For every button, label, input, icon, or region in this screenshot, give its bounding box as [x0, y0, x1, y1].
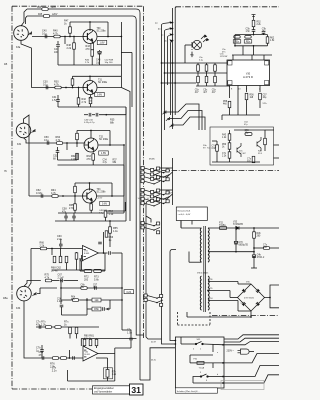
wire [180, 221, 182, 229]
value box [100, 201, 110, 205]
resistor R78 [45, 326, 51, 329]
svg-text:6800µ/35: 6800µ/35 [239, 245, 249, 247]
wire [72, 76, 74, 79]
wire [66, 263, 68, 270]
wire bottom stage top row [36, 326, 99, 328]
wire bundle line x136 [135, 20, 137, 330]
junction [105, 114, 107, 116]
shield dash-dot [191, 42, 193, 58]
wire [115, 347, 131, 349]
junction [253, 45, 255, 47]
relay block [176, 207, 207, 221]
wire [194, 104, 199, 130]
capacitor C7b [40, 350, 44, 352]
wire [90, 210, 92, 213]
capacitor C73 [39, 325, 41, 329]
resistor R33 emitter [89, 97, 92, 103]
capacitor C60 bias [197, 76, 200, 82]
wire [51, 249, 53, 256]
output wire 2 [224, 338, 279, 342]
resistor R62 bias [214, 65, 217, 71]
wire rail y83 [162, 82, 197, 84]
capacitor C40 [45, 35, 47, 39]
wire K31 to stage3 [24, 138, 34, 143]
capacitor C45 [89, 113, 91, 117]
resistor R52 [252, 20, 255, 26]
wire [190, 362, 197, 364]
wire topright rail2 [235, 45, 268, 47]
svg-text:K3a: K3a [16, 46, 21, 49]
svg-text:und Vorverstärker: und Vorverstärker [94, 391, 112, 394]
wire [64, 37, 66, 45]
svg-text:2.2k: 2.2k [67, 47, 72, 50]
svg-text:R45: R45 [38, 14, 43, 16]
junction [69, 36, 71, 38]
IC A273 D [227, 60, 270, 86]
svg-text:R5x: R5x [246, 40, 251, 44]
wire riser b [164, 31, 166, 131]
resistor R76 [52, 357, 58, 360]
wire [76, 326, 78, 328]
wire [238, 283, 251, 285]
resistor R72 [84, 269, 92, 272]
wire [68, 350, 70, 358]
transistor T32 [84, 138, 98, 152]
wire [130, 330, 132, 333]
junction [235, 251, 237, 253]
wire [184, 45, 186, 63]
wire [103, 232, 105, 253]
resistor R66b [74, 186, 77, 192]
wire [57, 101, 59, 107]
wire [212, 363, 214, 368]
wire secondary y251 [208, 251, 254, 253]
wire relay to transformer [180, 221, 182, 228]
wire [67, 370, 69, 381]
wire [109, 300, 111, 309]
resistor R60 bias [197, 65, 200, 71]
wire [57, 147, 59, 151]
svg-text:K31: K31 [17, 143, 22, 146]
wire IC pin13 [237, 86, 239, 116]
wire [87, 308, 92, 310]
connector pin arrow K31 [31, 129, 35, 133]
wire [186, 312, 188, 317]
svg-text:4×SY 360/1: 4×SY 360/1 [244, 297, 254, 300]
resistor R6b [81, 287, 87, 290]
output wire 1 [224, 335, 279, 339]
connector pin e [162, 111, 166, 115]
junction [78, 87, 80, 89]
value box 1.8V [97, 40, 107, 44]
svg-text:4.7k: 4.7k [45, 276, 50, 279]
fuse F31 [197, 362, 204, 365]
wire bridge - rail [187, 316, 251, 318]
wire [52, 280, 60, 282]
resistor R63 emitter [92, 154, 95, 160]
electrolytic C70 [234, 241, 238, 244]
svg-text:SC 238b: SC 238b [97, 192, 107, 194]
dashed enclosure [178, 324, 211, 326]
svg-text:T315A: T315A [219, 224, 226, 227]
capacitor C46 [96, 113, 98, 117]
transformer TR30 primary [200, 228, 201, 262]
wire [114, 348, 116, 377]
connector pin arrow K30 [28, 32, 32, 36]
junction [172, 72, 174, 74]
wire [160, 167, 173, 169]
connector pin arrow c [168, 34, 173, 37]
wire bottom bundle [146, 330, 162, 339]
capacitor C69 [42, 356, 44, 360]
svg-text:R44: R44 [37, 7, 42, 9]
junction [86, 299, 88, 301]
wire opamp out drop [121, 253, 123, 288]
wire [229, 130, 231, 134]
wire [65, 213, 67, 216]
wire [101, 299, 122, 301]
junction [269, 297, 271, 299]
junction [60, 287, 62, 289]
resistor R81 [75, 327, 78, 333]
wire IC top pin [232, 55, 234, 60]
left board frame (bottom) [12, 388, 92, 390]
wire stage2 collector rail [73, 75, 122, 77]
box pin c [222, 376, 224, 378]
capacitor C57b [95, 286, 97, 290]
svg-text:200: 200 [84, 278, 89, 281]
wire [76, 153, 78, 160]
capacitor C71 [73, 356, 75, 360]
wire opamp2 output [98, 353, 115, 355]
resistor R64 [52, 195, 58, 198]
wire [229, 149, 231, 152]
trimmer arrow [106, 308, 108, 311]
wire rail y63 [162, 62, 197, 64]
wire [58, 159, 78, 161]
wire [66, 143, 68, 150]
svg-text:1.8V: 1.8V [99, 41, 105, 45]
wire [76, 259, 78, 270]
junction [161, 62, 163, 64]
connector pin g [169, 124, 173, 128]
wire [106, 210, 126, 212]
resistor R62 [76, 153, 79, 159]
output wire 6 [224, 375, 279, 383]
resistor R58 [228, 101, 231, 107]
DIN connector K32 [17, 286, 32, 301]
wire lamp [185, 44, 192, 46]
wire secondary out y228 [208, 227, 279, 229]
wire bundle line x132 [131, 53, 133, 108]
wire stage4 ground rail [58, 212, 124, 214]
wire [107, 377, 109, 381]
bridge rectifier V34..V37 [238, 284, 265, 311]
junction [73, 36, 75, 38]
resistor R61 bias [205, 65, 208, 71]
transformer TR30 secondary lower [208, 276, 209, 310]
svg-text:1Ba: 1Ba [3, 296, 8, 300]
wire rail corner 2 [133, 16, 137, 20]
wire [69, 326, 71, 328]
svg-text:40.37: 40.37 [151, 342, 157, 344]
resistor R82 [83, 339, 86, 345]
capacitor C60 [59, 244, 63, 246]
wire [92, 152, 94, 154]
wire [196, 62, 227, 64]
wire to K32 [29, 249, 32, 287]
junction [250, 316, 252, 318]
junction [65, 87, 67, 89]
power switch unit box [175, 337, 224, 388]
wire bundle entry curve [146, 201, 160, 330]
capacitor C51 [56, 151, 60, 153]
wire IC pin7 [246, 86, 248, 93]
svg-text:SC 238a: SC 238a [99, 139, 109, 141]
wire [172, 158, 174, 205]
wire [267, 43, 269, 46]
wire [80, 270, 84, 272]
junction [175, 343, 177, 345]
wire [254, 247, 263, 249]
output wire 5 [224, 366, 279, 377]
junction [66, 142, 68, 144]
wire vertical x122 [121, 288, 123, 330]
junction bus b [172, 28, 174, 30]
junction [161, 82, 163, 84]
wire stage2 input [31, 87, 84, 89]
resistor R77 [60, 357, 66, 360]
svg-text:2.2µF: 2.2µF [58, 276, 65, 279]
wire [109, 131, 111, 146]
wire to edge [274, 157, 280, 159]
junction [121, 299, 123, 301]
junction box pin left [175, 340, 177, 342]
junction bus d [172, 40, 174, 42]
capacitor C5b [103, 307, 105, 311]
bridge diode V34 [242, 302, 246, 306]
wire [90, 345, 92, 347]
svg-text:1.5n: 1.5n [127, 331, 132, 334]
wire [229, 291, 231, 298]
sheet number box 31 [130, 384, 144, 395]
svg-text:47µ: 47µ [62, 210, 67, 213]
wire [190, 354, 213, 356]
wire [73, 213, 75, 216]
junction [103, 252, 105, 254]
resistor R45 [43, 15, 49, 18]
svg-text:1.1k: 1.1k [113, 230, 118, 233]
wire [237, 301, 239, 312]
label box bottom right [221, 381, 264, 390]
wire [74, 183, 76, 186]
svg-text:1.2nF: 1.2nF [57, 301, 63, 303]
svg-text:B 081: B 081 [84, 253, 90, 255]
svg-text:0.1µ: 0.1µ [43, 83, 48, 86]
resistor R40 [54, 35, 60, 38]
junction bus c [172, 34, 174, 36]
svg-text:(b): (b) [158, 29, 161, 31]
wire opamp2 ground [68, 380, 115, 382]
wire [69, 22, 71, 27]
wire [194, 111, 202, 131]
capacitor C41 [56, 45, 60, 47]
wire [57, 47, 59, 65]
svg-text:+20V: +20V [51, 7, 57, 9]
capacitor C58 [64, 216, 68, 218]
wire [246, 100, 248, 115]
resistor R44 reg [264, 138, 267, 144]
wire [91, 42, 93, 43]
wire feedback rail [81, 338, 136, 340]
svg-text:10µ: 10µ [96, 61, 101, 64]
resistor R56 [245, 93, 248, 99]
right board divider (horizontal) [162, 170, 279, 172]
wire [209, 376, 225, 378]
wire [60, 246, 62, 249]
caption box Eingangsverstaerker [93, 386, 131, 394]
wire [189, 355, 191, 363]
wire [136, 330, 143, 335]
resistor R43 1.2k [228, 134, 231, 140]
capacitor C59 [72, 216, 76, 218]
value box C2b [124, 290, 134, 294]
svg-text:Eingangsverstärker: Eingangsverstärker [94, 387, 114, 390]
output wire 4 [224, 354, 279, 363]
wire [107, 22, 109, 37]
wire [60, 249, 62, 257]
wire bus [123, 145, 125, 196]
resistor R66 [40, 247, 46, 250]
connector pin arrow a [162, 22, 173, 25]
capacitor C2b [60, 305, 64, 307]
wire [76, 251, 78, 254]
wire [180, 337, 182, 344]
svg-text:2.2k: 2.2k [40, 244, 45, 247]
wire [73, 218, 75, 221]
wire K32 pin down to opamp2 [24, 301, 30, 358]
wire [86, 298, 88, 315]
wire [41, 345, 43, 350]
junction [69, 357, 71, 359]
wire [216, 141, 218, 145]
wire [196, 85, 230, 87]
wire [106, 308, 111, 310]
wire [109, 233, 111, 247]
wire ground stub [251, 267, 257, 269]
junction [123, 144, 125, 146]
fuse F32 [220, 227, 227, 230]
svg-text:0.6V: 0.6V [102, 202, 108, 206]
wire [69, 33, 71, 36]
junction [72, 87, 74, 89]
resistor R7y [263, 247, 269, 250]
dashed enclosure side2 [209, 312, 211, 325]
resistor R43 emitter [91, 43, 94, 49]
svg-text:10k 1k: 10k 1k [84, 338, 92, 341]
diode V33 [236, 226, 239, 229]
wire [109, 221, 111, 227]
wire [107, 358, 109, 370]
wire topright rail3 [232, 54, 272, 56]
junction [89, 75, 91, 77]
wire [221, 115, 223, 120]
wire [79, 299, 92, 301]
left board frame (vertical) [11, 6, 13, 389]
resistor R44 [42, 8, 48, 11]
capacitor C31 [56, 100, 60, 102]
svg-text:0.1µ: 0.1µ [42, 32, 47, 35]
resistor [91, 50, 94, 56]
svg-text:46.3x: 46.3x [151, 360, 156, 362]
svg-text:2.7k: 2.7k [82, 101, 87, 104]
svg-text:4.7k: 4.7k [53, 32, 58, 35]
junction [253, 251, 255, 253]
resistor R73 [94, 269, 102, 272]
wire drop x170 to box [170, 252, 175, 341]
junction [253, 227, 255, 229]
svg-text:T1,5A: T1,5A [199, 367, 205, 370]
wire K32 arrow out [37, 288, 40, 294]
wire K32 to filter [24, 281, 41, 287]
wire left bundle down [140, 348, 175, 380]
junction [89, 182, 91, 184]
junction bus a [172, 22, 174, 24]
svg-text:47n: 47n [39, 354, 44, 357]
wire to bus [112, 252, 123, 254]
resistor R6b 47k [72, 299, 78, 302]
svg-text:2.2n: 2.2n [52, 369, 57, 372]
wire [90, 202, 92, 204]
wire [73, 37, 75, 43]
resistor R60 [56, 142, 62, 145]
wire [61, 307, 63, 315]
wire stage3 collector rail [77, 130, 110, 132]
svg-text:B 081: B 081 [85, 354, 91, 356]
svg-text:V3x: V3x [257, 292, 260, 294]
voltage regulator block [210, 127, 274, 165]
test point Y30 [252, 15, 256, 21]
svg-text:4.7k: 4.7k [56, 139, 61, 142]
junction [89, 21, 91, 23]
capacitor C37 [262, 32, 266, 34]
bridge diode V36 [256, 289, 260, 293]
wire [212, 344, 214, 352]
connector pin arrow b [165, 28, 173, 31]
resistor R69 [59, 256, 62, 262]
capacitor C63 [65, 256, 68, 262]
wire riser a into box [162, 336, 176, 344]
junction [74, 195, 76, 197]
wire [235, 228, 237, 239]
wire [191, 221, 193, 225]
wire in box [181, 343, 195, 345]
wire bridge out 2 [270, 298, 279, 308]
wire [125, 107, 127, 115]
junction [253, 247, 255, 249]
wire [57, 152, 59, 160]
wire [265, 129, 274, 131]
wire [120, 76, 122, 87]
wire [235, 239, 237, 241]
svg-text:270: 270 [86, 48, 91, 51]
svg-text:(d): (d) [164, 41, 167, 43]
resistor R80 [69, 327, 72, 333]
resistor R54t [245, 36, 251, 39]
op-amp V31 [83, 246, 99, 261]
wire [229, 140, 231, 143]
wire opamp1 output [99, 252, 104, 254]
